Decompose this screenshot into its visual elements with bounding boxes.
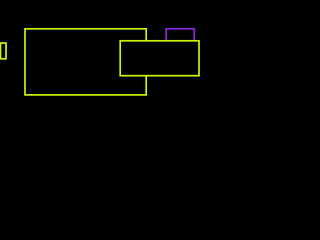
box B3 (medium outline, right, filled black over B2) [120,41,199,76]
box B1 (small outline, left edge) [1,43,7,59]
box B4 (purple outline, top right) [166,29,194,41]
box B2 (large outline) [25,29,146,95]
